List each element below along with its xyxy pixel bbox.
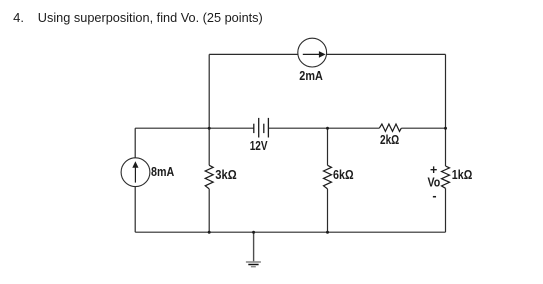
resistor 3k (vertical zigzag with leads) — [205, 128, 213, 232]
svg-text:8mA: 8mA — [151, 165, 174, 179]
label Vo with + polarity mark — [428, 163, 441, 203]
svg-text:-: - — [432, 189, 436, 203]
value label 1kΩ — [452, 168, 473, 182]
value label 2mA — [299, 69, 323, 83]
wire: middle horizontal (left segment, node to 12V battery) — [135, 127, 254, 129]
svg-text:6kΩ: 6kΩ — [333, 168, 354, 182]
current source 2mA (circle with right arrow) — [298, 38, 327, 67]
junction: ground / bottom wire — [252, 231, 255, 234]
svg-text:Vo: Vo — [428, 176, 441, 190]
value label 6kΩ — [333, 168, 354, 182]
svg-text:Using superposition, find Vo.: Using superposition, find Vo. (25 points… — [38, 10, 263, 25]
resistor 1k (vertical zigzag in right branch with leads) — [442, 128, 450, 232]
svg-text:2mA: 2mA — [299, 69, 323, 83]
svg-text:2kΩ: 2kΩ — [380, 133, 399, 147]
svg-text:4.: 4. — [13, 10, 24, 25]
value label 3kΩ — [215, 168, 236, 182]
value label 8mA — [151, 165, 174, 179]
resistor 6k (vertical zigzag with leads) — [324, 128, 332, 232]
junction: 6k bottom / bottom wire — [326, 231, 329, 234]
resistor 2k (horizontal zigzag) — [379, 124, 401, 131]
wire: bottom horizontal — [135, 231, 445, 233]
junction: 3k bottom / bottom wire — [208, 231, 211, 234]
current source 8mA (circle with up arrow) — [121, 158, 150, 187]
junction: node A (3k top / top loop / middle wire) — [208, 127, 211, 130]
junction: 6k top / middle wire — [326, 127, 329, 130]
svg-text:12V: 12V — [250, 139, 268, 153]
wire: top loop left vertical (node A up to top wire) — [208, 54, 210, 128]
value label 12V — [250, 139, 268, 153]
wire: middle horizontal (2k resistor to right node) — [401, 127, 445, 129]
svg-text:1kΩ: 1kΩ — [452, 168, 473, 182]
battery 12V (plates) — [254, 118, 269, 138]
wire: top horizontal (left of 2mA source) — [209, 53, 298, 55]
wire: middle horizontal (battery to 2k resistor) — [268, 127, 379, 129]
wire: top horizontal (right of 2mA source) — [327, 53, 446, 55]
title question text — [13, 10, 263, 25]
value label 2kΩ — [380, 133, 399, 147]
junction: 2k / right branch — [444, 127, 447, 130]
wire: left vertical branch (middle wire through 8mA source to bottom) — [134, 128, 136, 232]
wire: right vertical (top wire down to 2k node) — [445, 54, 447, 128]
svg-text:3kΩ: 3kΩ — [215, 168, 236, 182]
ground symbol — [246, 232, 261, 267]
